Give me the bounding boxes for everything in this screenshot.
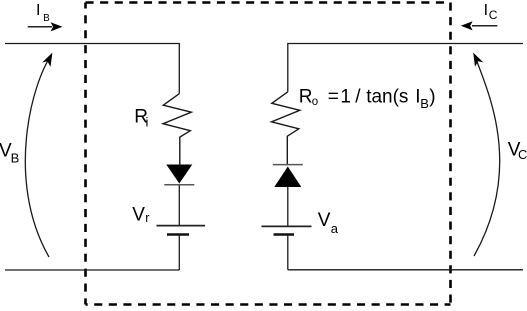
svg-text:B: B	[420, 96, 429, 111]
svg-text:a: a	[331, 221, 339, 236]
svg-text:B: B	[11, 150, 20, 165]
svg-text:tan(s: tan(s	[366, 86, 408, 107]
svg-text:i: i	[146, 115, 149, 130]
svg-text:R: R	[299, 86, 313, 107]
svg-text:I: I	[36, 2, 40, 19]
svg-text:): )	[429, 86, 435, 107]
svg-text:r: r	[145, 211, 149, 225]
svg-text:C: C	[489, 8, 498, 22]
svg-text:V: V	[318, 210, 331, 231]
svg-text:o: o	[312, 96, 318, 108]
svg-text:1: 1	[340, 86, 351, 107]
svg-text:V: V	[132, 204, 145, 225]
svg-text:=: =	[328, 86, 339, 107]
svg-text:/: /	[355, 86, 361, 107]
svg-text:I: I	[484, 2, 488, 19]
svg-text:C: C	[518, 147, 527, 162]
svg-text:B: B	[43, 13, 50, 24]
